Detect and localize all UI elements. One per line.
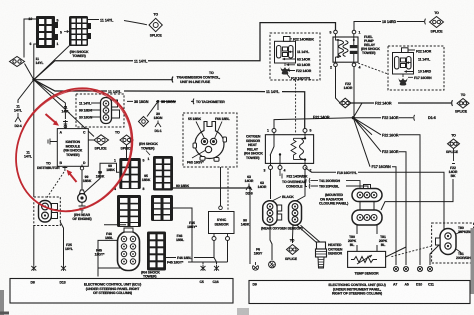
scan speckle [0,0,1,1]
wire F6 18GY ground from C105 [270,225,272,260]
wire distributor to ECU D8 [33,226,35,266]
crank position sensor (RH rear of engine) [72,190,91,221]
wire junction down-left stub D2-4 [18,80,34,103]
fuel pump relay K1 [330,30,361,69]
connector C112 (cluster mid-left 10-way) [117,195,141,227]
connector C115 oval (cluster bottom-left) [118,228,140,271]
wire module pin C to splice S3 [88,139,94,141]
wire 30 18GN to tachometer [127,99,194,105]
red arrow upper [46,114,57,124]
ignition module U1 [57,129,88,167]
wire C106 to splice S9 [292,225,295,243]
wire to transmission control [34,77,173,83]
connector C113 (cluster mid-right 10-way) [151,195,173,221]
splice diamond S10 right [448,139,460,149]
node main junction [32,78,35,81]
wire dashed leader to heat relay [295,80,297,134]
wire pin3 down 63 14OR to black connector [270,170,272,200]
connector C109 dashed box right [432,223,474,263]
splice diamond S6 top-right [430,17,444,28]
sync sensor box [209,212,235,241]
wire F22 14OR down to heat relay pin1 [274,118,353,129]
wire module pin D down 99 18BK [81,165,83,167]
oxygen sensor heat relay K2 [264,129,314,173]
scan artifacts [0,290,4,315]
wire C102 to splice TO SPLICE [88,20,147,25]
connector C101 (RH shock tower 8-way) [29,16,59,48]
ECU box right [249,281,470,304]
splice diamond S9 [287,245,299,255]
wire junction to splice S1 [25,64,34,80]
connector C111 (cluster top-right 10-way) [148,156,174,191]
distributor connector C104 dashed box [34,197,61,226]
connector C110 (cluster top-left 8-way) [114,158,145,191]
wire fan to F22 14OR (D1-6) [353,115,414,121]
wire junction vertical to distributor [33,80,35,197]
splice diamond S3 [94,135,109,145]
wire junction to ignition module pin A [34,80,66,119]
wire F22 14OR BK from splice S10 down [452,149,455,164]
wire dashed leader C109 to temp sensor [390,246,432,257]
wires T41/T80 into C107 [346,181,368,188]
wire F22 14OR right to splice S8 [351,100,453,106]
splice diamond S5 (left of ignition module area) [120,135,133,145]
wire F45 18GY* line to C5 [160,262,228,264]
connector C102 (RH shock tower 15-way) [60,16,91,58]
wire fan to F22 16OR lower (A5) [353,118,406,265]
wire C115 left side loops [98,225,126,277]
wire F22 14OR from relay pin2 down to splice S7 [336,67,341,103]
wire dashed leader fuel relay to detail [358,63,388,74]
wire sync connector to sync sensor [220,167,222,206]
wire pin2 down and F18 16GY/YL [296,168,444,266]
wire tach dot down to splice S4 [147,101,158,116]
ECU box left [10,279,233,304]
connector C103 in dashed box (11 14YL / 99 18BK / 30 18GN) [76,94,124,127]
wire pin4 F22 14OR/BK to overhead console [280,170,282,179]
wire 90 18BK from C111 to right [173,187,250,189]
wire C101 pin10 to splice S1 [24,19,36,58]
connector C116 (cluster bottom-mid 10-way) [147,232,166,271]
connector C105 near oxygen sensor (left) [263,201,282,226]
wire F22 16OR continuation down to D10 [419,152,421,265]
relay detail dashed box (fuel pump relay) [388,46,444,90]
wire fan to F22 16OR (D10) [353,118,420,152]
node fan junction [352,116,355,119]
wire 90 14BK from connector cluster to ECU D9 [249,188,251,264]
terminal screws C5 C16 [201,265,206,272]
splice diamond S1 top-left [10,57,25,67]
wire C113 to F45 line [173,208,192,262]
red arrow lower [69,173,77,183]
terminal screws A7 A5 D10 C11 [393,266,432,271]
connector C107 radiator closure panel (upper) [352,185,382,202]
wire 99 18BK from connector C110 to sensor [85,163,120,192]
wire 11 14YL horizontal to fuel pump relay [34,23,336,80]
wire F22 14OR from relay pin4 down to fan junction [352,67,355,118]
relay detail dashed box (ox sensor heat relay) [270,33,320,80]
wire junction long diagonal to splice S3 [34,80,94,137]
wire fan to F17 16ORN (A7) [353,118,396,265]
splice diamond S8 [457,99,469,109]
wire sync terminals down to ECU C5/C16 [214,241,228,263]
heated oxygen sensor [297,225,343,268]
temp sensor [348,251,386,275]
wire 11 14YL lower run to oxygen heat relay coil [34,80,305,129]
wire black label arrow [272,197,281,202]
wire temp sensor to A5 terminal [386,247,406,257]
connector C106 near oxygen sensor (right) [289,201,302,226]
wire F46 18BL line to C16 [166,258,217,265]
splice diamond S7 [340,98,352,108]
node 30 18GN D1-1 stub [157,101,159,110]
splice diamond S4 [139,117,149,127]
wire module pin B dashed to distributor [63,166,68,171]
wire 10 14RD to splice [354,19,426,30]
wire F25 18YL to ECU D13 [60,222,63,265]
wire junction to C102 [34,46,70,80]
wire module left ground stub [48,139,57,145]
wires C108 to temp sensor [357,225,377,251]
connector C108 radiator closure panel (lower) [352,202,382,226]
wire fan up-right to S7 line [353,103,362,118]
sync sensor dashed box connector C114 [183,113,237,167]
splice diamond S2 top-middle [149,18,162,31]
wire C101 pin6 to junction [34,44,36,80]
red annotation circle [0,66,156,234]
